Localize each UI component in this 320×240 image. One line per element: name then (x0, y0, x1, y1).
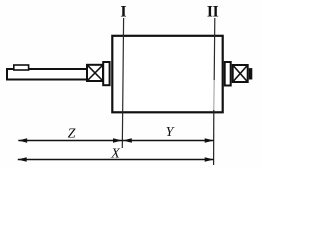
arrow Z left (18, 138, 27, 142)
arrow Z right (113, 138, 122, 142)
section line II faint middle (213, 80, 215, 110)
svg-text:X: X (110, 147, 120, 162)
section line II extension (213, 110, 215, 165)
svg-text:Z: Z (68, 126, 76, 141)
arrow Y right (205, 138, 214, 142)
left bearing (87, 65, 103, 81)
right bearing (233, 65, 248, 82)
svg-text:I: I (120, 4, 126, 21)
svg-text:II: II (207, 4, 219, 21)
right shaft cap (250, 69, 252, 79)
dimension line Z (18, 140, 122, 142)
dimension line X (18, 159, 214, 161)
shaft (7, 69, 88, 80)
arrow X left (18, 157, 27, 161)
right end flange (225, 62, 231, 86)
left end flange (103, 62, 109, 85)
dimension line Y (122, 140, 213, 142)
key (14, 65, 29, 70)
section line II (213, 18, 216, 80)
arrow X right (205, 157, 214, 161)
section line I (122, 18, 123, 148)
motor body (112, 36, 222, 113)
arrow Y left (123, 138, 132, 142)
